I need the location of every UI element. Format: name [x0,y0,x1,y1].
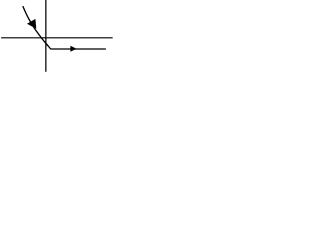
background [0,0,115,75]
arrowhead on diagonal segment [27,19,36,29]
arrowhead on horizontal segment [70,46,76,52]
trajectory curve: diagonal bending to horizontal [23,6,106,49]
x-axis (horizontal line) [1,37,113,39]
y-axis (vertical line) [45,0,47,72]
